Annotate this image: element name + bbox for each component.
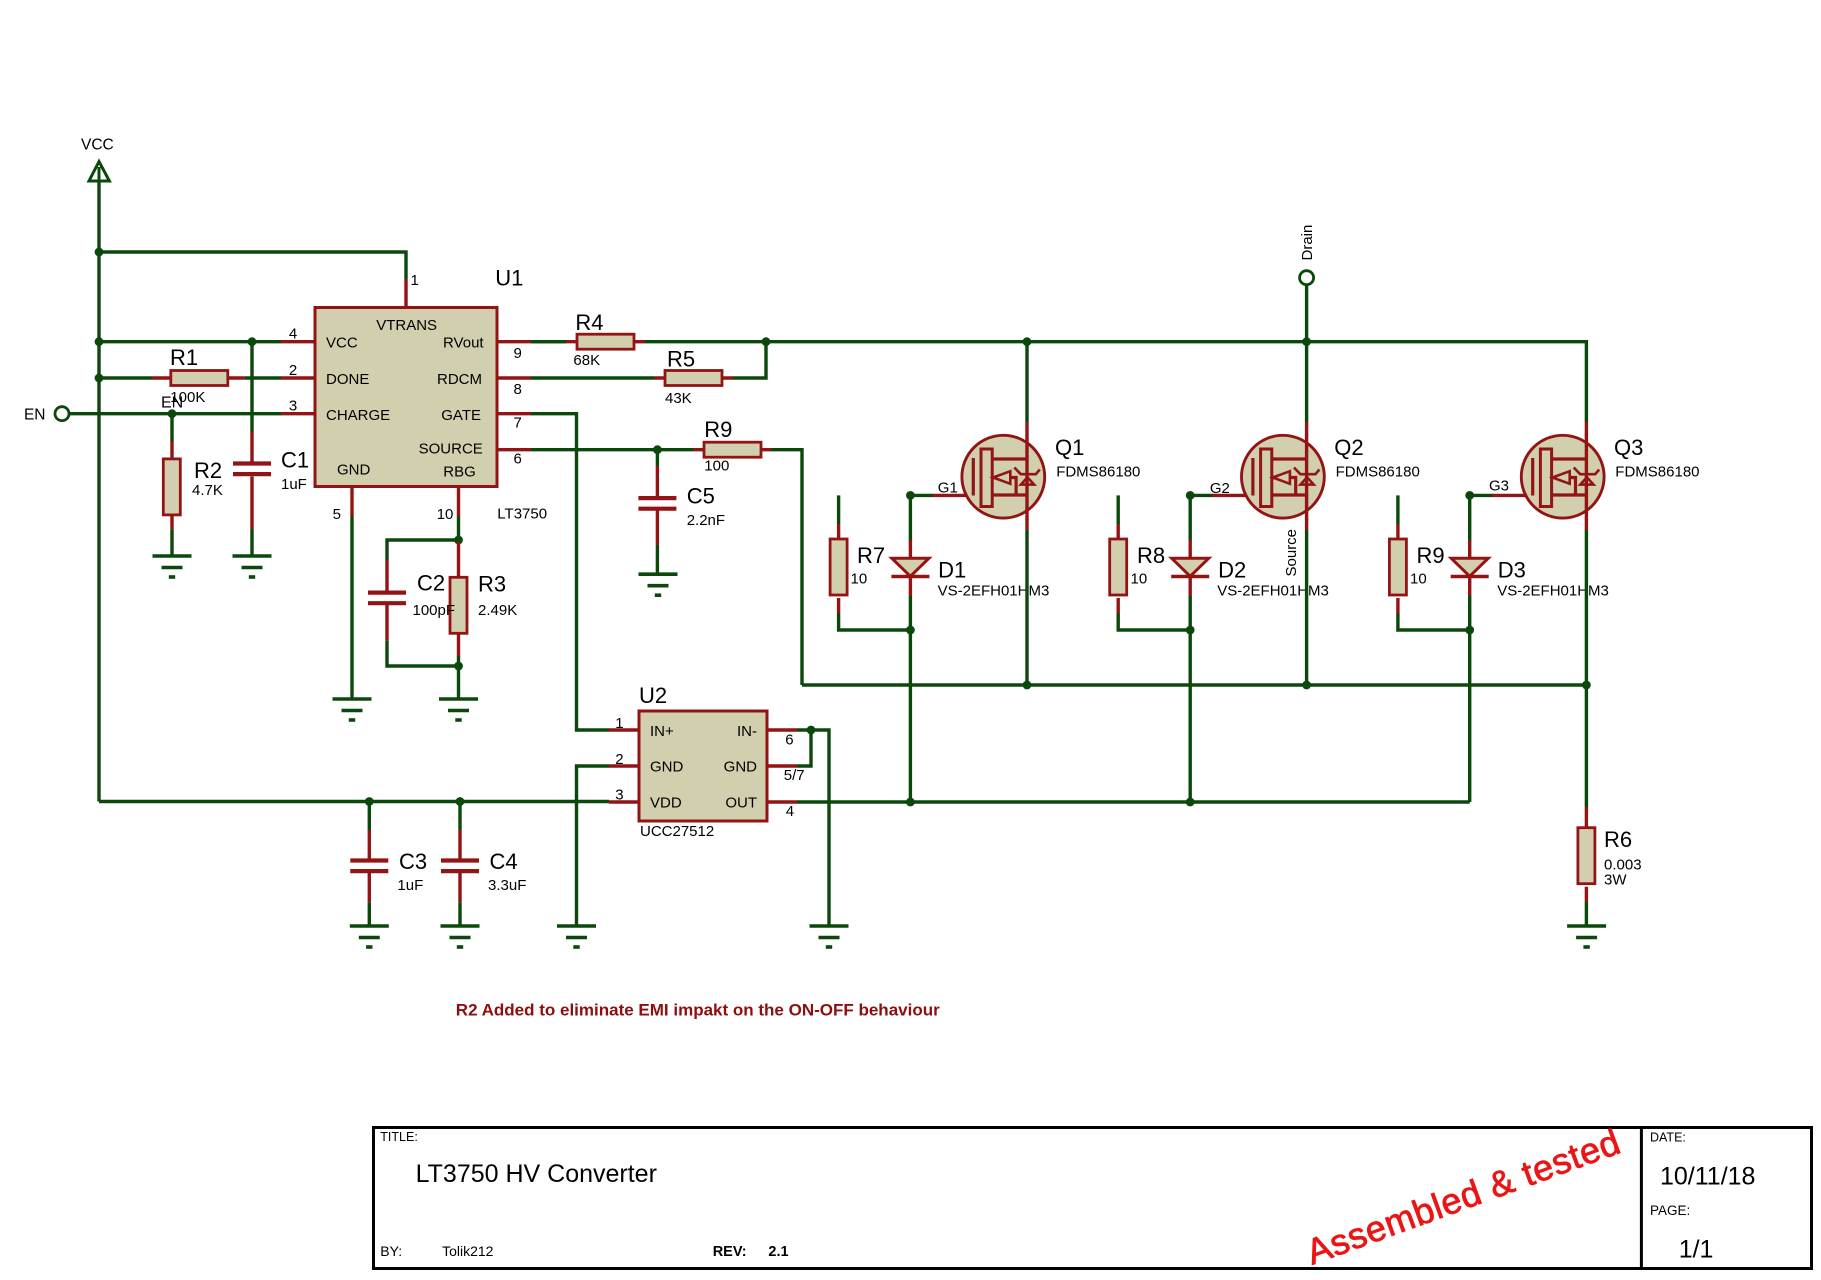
resistor R6 leads xyxy=(1585,807,1588,902)
junction xyxy=(95,248,104,257)
Q1 source pin stub xyxy=(1025,519,1028,531)
wire Drain terminal to Q2 xyxy=(1305,285,1308,342)
svg-text:R5: R5 xyxy=(667,347,695,372)
resistor R1 body xyxy=(171,371,228,386)
resistor R2 body xyxy=(163,459,180,515)
wire to C2 top xyxy=(387,540,459,560)
wire U2 IN- to GND 5/7 xyxy=(797,730,811,766)
svg-text:R6: R6 xyxy=(1604,827,1632,852)
svg-text:10: 10 xyxy=(851,571,868,588)
U1 pin 1 stub xyxy=(404,279,407,308)
U1 pin 3 stub xyxy=(281,412,315,415)
Q3 source pin stub xyxy=(1585,519,1588,531)
wire source rail xyxy=(802,683,1586,686)
wire gate to Q2 xyxy=(1190,494,1213,497)
svg-text:LT3750: LT3750 xyxy=(497,506,547,523)
svg-text:R1: R1 xyxy=(170,345,198,370)
svg-text:VDD: VDD xyxy=(650,794,682,811)
svg-text:R9: R9 xyxy=(704,417,732,442)
svg-text:1: 1 xyxy=(411,272,419,289)
svg-text:R9: R9 xyxy=(1417,543,1445,568)
wire VCC to U1 pin 1 (VTRANS) xyxy=(99,252,406,279)
junction xyxy=(1302,337,1311,346)
svg-text:D2: D2 xyxy=(1218,558,1246,583)
svg-text:G2: G2 xyxy=(1210,480,1230,497)
svg-text:D1: D1 xyxy=(938,558,966,583)
junction xyxy=(1186,798,1195,807)
wire pin9 xyxy=(531,340,566,343)
wire R9 to source rail xyxy=(772,450,803,685)
svg-text:DONE: DONE xyxy=(326,371,369,388)
wire to C5 xyxy=(656,450,659,466)
ground (C5) xyxy=(639,574,678,595)
svg-text:VCC: VCC xyxy=(81,137,114,154)
resistor R7 leads xyxy=(837,524,840,614)
junction xyxy=(906,626,915,635)
ground (R6) xyxy=(1567,926,1606,947)
wire C1 to ground xyxy=(250,529,253,556)
wire VDD to C4 xyxy=(458,802,461,831)
U2 pin 1 stub xyxy=(609,728,639,731)
wire R7 bottom to node xyxy=(839,614,911,631)
Q2 drain pin stub xyxy=(1305,422,1308,436)
wire Q3 source xyxy=(1585,530,1588,685)
svg-text:R8: R8 xyxy=(1137,543,1165,568)
resistor R7 body xyxy=(830,539,847,595)
svg-text:UCC27512: UCC27512 xyxy=(640,823,714,840)
svg-text:Q1: Q1 xyxy=(1055,435,1084,460)
svg-text:IN+: IN+ xyxy=(650,723,674,740)
svg-text:2.49K: 2.49K xyxy=(478,602,517,619)
svg-text:8: 8 xyxy=(514,381,522,398)
svg-text:7: 7 xyxy=(514,415,522,432)
U2 pin 5/7 stub xyxy=(767,764,797,767)
svg-text:FDMS86180: FDMS86180 xyxy=(1615,464,1699,481)
wire R1 right to U1 pin 2 xyxy=(245,376,281,379)
svg-text:REV:: REV: xyxy=(713,1244,747,1260)
wire Q1 drain to RVout rail xyxy=(1025,342,1028,422)
U1 pin 8 stub xyxy=(497,376,531,379)
Q1 gate pin stub xyxy=(932,494,965,497)
resistor R9 leads xyxy=(1396,524,1399,614)
svg-text:C4: C4 xyxy=(490,849,518,874)
svg-text:4: 4 xyxy=(289,326,297,343)
diode D2 leads xyxy=(1188,540,1191,596)
ground (U1 pin5) xyxy=(333,699,372,720)
svg-text:100: 100 xyxy=(704,457,729,474)
wire U2 IN- to ground xyxy=(797,730,829,926)
svg-text:10: 10 xyxy=(1131,571,1148,588)
resistor R9 body xyxy=(1389,539,1406,595)
svg-text:TITLE:: TITLE: xyxy=(380,1130,418,1144)
svg-text:1/1: 1/1 xyxy=(1679,1236,1714,1264)
svg-text:U2: U2 xyxy=(639,683,667,708)
terminal EN xyxy=(24,407,69,424)
Q3 gate pin stub xyxy=(1492,494,1526,497)
capacitor C3 leads xyxy=(368,830,371,902)
resistor R4 body xyxy=(577,334,634,349)
wire R6 to ground xyxy=(1585,902,1588,926)
svg-text:GATE: GATE xyxy=(441,407,481,424)
svg-text:LT3750 HV Converter: LT3750 HV Converter xyxy=(416,1160,657,1188)
wire C3 to ground xyxy=(368,902,371,926)
svg-text:RVout: RVout xyxy=(443,335,484,352)
svg-text:C2: C2 xyxy=(417,571,445,596)
U2 pin 6 stub xyxy=(767,728,797,731)
ground (C3) xyxy=(350,926,389,947)
svg-text:FDMS86180: FDMS86180 xyxy=(1056,464,1140,481)
svg-text:BY:: BY: xyxy=(380,1243,402,1259)
wire+lead U1 pin9 to R4 xyxy=(531,340,577,343)
wire gate node to D1 xyxy=(909,495,912,541)
U1 pin 9 stub xyxy=(497,340,531,343)
svg-text:D3: D3 xyxy=(1498,558,1526,583)
wire gate corner to R9 xyxy=(1396,495,1399,524)
junction xyxy=(1186,626,1195,635)
junction xyxy=(906,491,915,500)
svg-text:OUT: OUT xyxy=(725,794,757,811)
svg-text:4: 4 xyxy=(786,803,794,820)
junction xyxy=(95,374,104,383)
junction xyxy=(762,337,771,346)
capacitor C3 plates xyxy=(350,861,388,872)
svg-text:43K: 43K xyxy=(665,390,692,407)
U2 pin 3 stub xyxy=(609,800,639,803)
wire Q2 source xyxy=(1305,530,1308,685)
Q1 drain pin stub xyxy=(1025,422,1028,436)
svg-text:Q3: Q3 xyxy=(1614,435,1643,460)
diode D3 leads xyxy=(1468,540,1471,596)
wire gate corner to R8 xyxy=(1116,495,1119,524)
svg-text:VS-2EFH01HM3: VS-2EFH01HM3 xyxy=(1217,583,1329,600)
wire R8 bottom to node xyxy=(1118,614,1190,631)
svg-text:U1: U1 xyxy=(495,266,523,291)
resistor R9 body xyxy=(704,442,761,457)
wire U2 GND pin2 to ground xyxy=(577,766,610,926)
U1 pin numbers xyxy=(289,272,522,523)
svg-text:R2 Added to eliminate EMI impa: R2 Added to eliminate EMI impakt on the … xyxy=(456,1001,940,1020)
svg-text:R4: R4 xyxy=(575,310,603,335)
junction xyxy=(456,797,465,806)
junction xyxy=(1465,626,1474,635)
svg-text:9: 9 xyxy=(514,345,522,362)
Q2 gate pin stub xyxy=(1212,494,1245,497)
wire VCC left rail xyxy=(97,180,100,802)
svg-text:10: 10 xyxy=(1410,571,1427,588)
U1 pin 4 stub xyxy=(281,340,315,343)
junction xyxy=(248,337,257,346)
junction xyxy=(454,536,463,545)
svg-text:1uF: 1uF xyxy=(397,877,423,894)
resistor R8 leads xyxy=(1116,524,1119,614)
wire gate corner to R7 xyxy=(837,495,840,524)
svg-text:VS-2EFH01HM3: VS-2EFH01HM3 xyxy=(938,583,1050,600)
capacitor C2 plates xyxy=(368,593,406,604)
svg-text:RBG: RBG xyxy=(443,464,476,481)
ground (U2 GND) xyxy=(557,926,596,947)
resistor R3 leads xyxy=(457,542,460,656)
svg-text:6: 6 xyxy=(514,451,522,468)
svg-text:SOURCE: SOURCE xyxy=(419,440,483,457)
U1 pin names xyxy=(326,317,484,481)
wire U1 GND pin 5 to ground xyxy=(350,517,353,700)
wire Q2 drain xyxy=(1305,342,1308,422)
svg-text:Assembled & tested: Assembled & tested xyxy=(1301,1121,1626,1273)
wire gate to Q3 xyxy=(1470,494,1493,497)
capacitor C2 leads xyxy=(385,560,388,641)
wire C4 to ground xyxy=(458,902,461,926)
wire EN to R2 xyxy=(170,414,173,441)
svg-text:G1: G1 xyxy=(938,480,958,497)
resistor R4 right lead xyxy=(634,340,645,343)
U2 pin 4 stub xyxy=(767,800,797,803)
wire U2 OUT to gate networks xyxy=(797,800,1470,803)
junction xyxy=(653,445,662,454)
Q3 drain pin stub xyxy=(1585,422,1588,436)
title block frame xyxy=(374,1128,1812,1269)
capacitor C5 plates xyxy=(638,498,676,509)
svg-text:Source: Source xyxy=(1283,529,1300,577)
wire C2 bottom to node xyxy=(387,641,459,666)
capacitor C4 plates xyxy=(441,861,479,872)
resistor R5 leads xyxy=(655,376,733,379)
wire source rail to R6 xyxy=(1585,685,1588,807)
U1 pin 6 stub xyxy=(497,448,531,451)
ground (RBG network) xyxy=(439,699,478,720)
svg-text:DATE:: DATE: xyxy=(1650,1131,1686,1145)
svg-text:100pF: 100pF xyxy=(413,602,456,619)
diode D2 symbol xyxy=(1172,558,1209,576)
junction xyxy=(454,662,463,671)
svg-text:10: 10 xyxy=(437,506,454,523)
svg-text:C5: C5 xyxy=(687,484,715,509)
op-amp U1 LT3750 body xyxy=(315,308,497,487)
svg-text:10/11/18: 10/11/18 xyxy=(1660,1163,1755,1191)
wire D2 bottom to OUT line xyxy=(1188,596,1191,802)
svg-text:2.2nF: 2.2nF xyxy=(687,512,725,529)
svg-text:Tolik212: Tolik212 xyxy=(442,1243,494,1259)
svg-text:PAGE:: PAGE: xyxy=(1650,1203,1690,1218)
resistor R6 body xyxy=(1578,828,1595,884)
wire gate to Q1 xyxy=(910,494,933,497)
wire VCC to C1 xyxy=(250,342,253,432)
wire gate node to D2 xyxy=(1188,495,1191,541)
svg-text:C1: C1 xyxy=(281,448,309,473)
capacitor C1 leads xyxy=(250,432,253,530)
svg-text:3W: 3W xyxy=(1604,872,1627,889)
ground (C4) xyxy=(441,926,480,947)
resistor R2 leads xyxy=(170,441,173,530)
U1 pin 10 stub xyxy=(457,487,460,517)
svg-text:EN: EN xyxy=(24,407,46,424)
wire EN to U1 pin 3 (CHARGE) xyxy=(69,412,281,415)
power flag VCC xyxy=(81,137,114,182)
terminal Drain xyxy=(1299,225,1316,285)
wire R3 bottom to ground xyxy=(457,656,460,699)
junction xyxy=(906,798,915,807)
svg-text:GND: GND xyxy=(724,759,758,776)
wire D3 bottom to OUT line xyxy=(1468,596,1471,802)
wire Q1 source to source rail xyxy=(1025,530,1028,685)
svg-text:VS-2EFH01HM3: VS-2EFH01HM3 xyxy=(1497,583,1609,600)
junction xyxy=(1302,681,1311,690)
junction xyxy=(168,409,177,418)
wire U1 SOURCE to R9 xyxy=(531,448,694,451)
svg-text:68K: 68K xyxy=(573,352,600,369)
svg-text:C3: C3 xyxy=(399,849,427,874)
diode D3 symbol xyxy=(1451,558,1488,576)
transistor Q3 (N-MOSFET) xyxy=(1521,435,1604,520)
diode D1 leads xyxy=(909,540,912,596)
svg-text:R7: R7 xyxy=(857,543,885,568)
svg-text:VTRANS: VTRANS xyxy=(376,317,437,334)
op-amp U2 UCC27512 body xyxy=(639,711,767,821)
capacitor C5 leads xyxy=(656,466,659,545)
svg-text:100K: 100K xyxy=(170,389,205,406)
wire R2 to ground xyxy=(170,530,173,556)
svg-text:1uF: 1uF xyxy=(281,476,307,493)
junction xyxy=(1465,491,1474,500)
svg-text:GND: GND xyxy=(650,759,684,776)
svg-text:IN-: IN- xyxy=(737,723,757,740)
wire U1 pin8 to R5 xyxy=(531,376,655,379)
junction xyxy=(1186,491,1195,500)
svg-text:Q2: Q2 xyxy=(1334,435,1363,460)
svg-text:R2: R2 xyxy=(194,458,222,483)
wire RVout rail to Q3 drain xyxy=(645,342,1586,422)
U2 pin 2 stub xyxy=(609,764,639,767)
resistor R3 body xyxy=(450,577,467,633)
svg-text:5/7: 5/7 xyxy=(784,767,805,784)
wire U1 pin 10 to node RBG xyxy=(457,517,460,543)
junction xyxy=(1582,681,1591,690)
resistor R9 leads xyxy=(694,448,772,451)
svg-text:5: 5 xyxy=(333,506,341,523)
junction xyxy=(1023,681,1032,690)
ground (R2) xyxy=(153,556,192,577)
resistor R1 leads xyxy=(153,376,245,379)
junction xyxy=(1023,337,1032,346)
wire gate node to D3 xyxy=(1468,495,1471,541)
wire VDD to C3 xyxy=(368,802,371,831)
U1 pin 7 stub xyxy=(497,412,531,415)
transistor Q1 (N-MOSFET) xyxy=(962,435,1045,520)
svg-text:FDMS86180: FDMS86180 xyxy=(1336,464,1420,481)
wire VDD line to U2 pin 3 xyxy=(99,800,609,803)
resistor R5 body xyxy=(665,371,722,386)
U1 pin 5 stub xyxy=(350,487,353,517)
svg-text:VCC: VCC xyxy=(326,335,358,352)
wire R5 to RVout junction xyxy=(733,342,767,378)
svg-text:4.7K: 4.7K xyxy=(192,482,223,499)
wire to R1 left xyxy=(99,376,153,379)
capacitor C1 plates xyxy=(233,464,271,475)
junction xyxy=(95,337,104,346)
ground (U2 IN-) xyxy=(810,926,849,947)
title block texts xyxy=(380,1130,1755,1264)
svg-text:GND: GND xyxy=(337,462,371,479)
Q2 source pin stub xyxy=(1305,519,1308,531)
junction xyxy=(807,726,816,735)
svg-text:Drain: Drain xyxy=(1299,225,1316,261)
svg-text:G3: G3 xyxy=(1489,478,1509,495)
wire C5 to ground xyxy=(656,545,659,574)
svg-text:3.3uF: 3.3uF xyxy=(488,877,526,894)
ground (C1) xyxy=(233,556,272,577)
U1 pin 2 stub xyxy=(281,376,315,379)
wire U1 GATE to U2 IN+ xyxy=(531,414,609,730)
transistor Q2 (N-MOSFET) xyxy=(1242,435,1325,520)
capacitor C4 leads xyxy=(458,830,461,902)
svg-text:R3: R3 xyxy=(478,572,506,597)
junction xyxy=(365,797,374,806)
wire D1 bottom to OUT line xyxy=(909,596,912,802)
wire R9 bottom to node xyxy=(1398,614,1470,631)
U2 pin names xyxy=(650,723,757,811)
resistor R8 body xyxy=(1110,539,1127,595)
U2 pin numbers xyxy=(615,715,804,820)
diode D1 symbol xyxy=(892,558,929,576)
svg-text:CHARGE: CHARGE xyxy=(326,407,390,424)
svg-text:2.1: 2.1 xyxy=(768,1244,788,1260)
svg-text:RDCM: RDCM xyxy=(437,371,482,388)
wire VCC to U1 pin 4 xyxy=(99,340,281,343)
svg-text:6: 6 xyxy=(785,731,793,748)
